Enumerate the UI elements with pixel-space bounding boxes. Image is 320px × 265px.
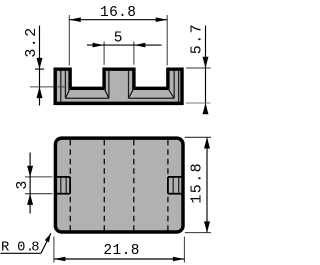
dimension 3 extension lines (notch height) bbox=[25, 177, 53, 194]
plan view: rounded rectangle body outline bbox=[55, 138, 183, 232]
R 0.8 leader arrowhead bbox=[45, 233, 51, 242]
svg-text:21.8: 21.8 bbox=[103, 243, 139, 259]
front view right leg fillet edge lines bbox=[174, 71, 178, 102]
dimension 3.2 lower extension line (hidden part, under front view) bbox=[30, 86, 67, 88]
front view base fillet horizontal edges bbox=[65, 97, 174, 99]
dimension 3 lower arrowhead bbox=[27, 194, 33, 205]
svg-text:3.2: 3.2 bbox=[23, 26, 40, 57]
dimension 3.2 upper arrowhead bbox=[37, 58, 43, 69]
dimension 21.8 extension lines bbox=[54, 237, 185, 263]
plan view hidden slot edges (dashed) bbox=[70, 140, 168, 231]
dimension 21.8 dimension line bbox=[54, 258, 185, 260]
dimension 5.7 lower extension line bbox=[186, 102, 211, 104]
corner radius label R 0.8 bbox=[1, 240, 40, 255]
dimension 3 upper arrowhead bbox=[27, 166, 33, 177]
svg-text:16.8: 16.8 bbox=[100, 5, 136, 21]
dimension 3.2 dimension line (leg height) bbox=[39, 26, 41, 106]
dimension 16.8 dimension line bbox=[69, 19, 167, 21]
dimension 15.8 lower arrowhead bbox=[204, 221, 210, 232]
R 0.8 leader diagonal bbox=[41, 233, 51, 253]
dimension 15.8 upper arrowhead bbox=[204, 137, 210, 148]
dimension 21.8 left arrowhead bbox=[54, 257, 66, 262]
dimension 5.7 dimension line (total height) bbox=[205, 26, 207, 112]
dimension 5.7 upper arrowhead bbox=[203, 57, 209, 68]
dimension 5 right arrowhead bbox=[134, 43, 146, 48]
front view left leg fillet edge lines bbox=[61, 71, 66, 102]
svg-text:3: 3 bbox=[14, 180, 31, 189]
plan view left side notch outline bbox=[55, 177, 70, 194]
dimension 3.2 lower arrowhead bbox=[37, 87, 43, 98]
dimension 15.8 lower extension line bbox=[185, 232, 211, 234]
dimension 5.7 lower arrowhead bbox=[203, 103, 209, 114]
dimension 3 dimension line bbox=[29, 153, 31, 214]
plan view left notch inner edge lines bbox=[61, 178, 66, 193]
dimension 15.8 dimension line (plan depth) bbox=[206, 137, 208, 232]
dimension 16.8 right arrowhead bbox=[156, 17, 168, 22]
front view slot corner fillet diagonals bbox=[65, 88, 174, 98]
dimension 3.2 lower extension line (visible part over fill) bbox=[58, 86, 67, 88]
dimension 5 dimension line bbox=[87, 44, 162, 46]
plan view right side notch outline bbox=[168, 177, 183, 194]
front view: E-core comb cross-section outline bbox=[55, 69, 182, 103]
dimension 16.8 left arrowhead bbox=[69, 17, 81, 22]
dimension 3.2 upper extension tick bbox=[35, 68, 44, 70]
R 0.8 leader underline bbox=[1, 252, 42, 254]
dimension 15.8 upper extension line bbox=[185, 136, 211, 138]
dimension 21.8 right arrowhead bbox=[173, 257, 185, 262]
svg-text:15.8: 15.8 bbox=[189, 162, 206, 204]
dimension 5.7 upper extension line bbox=[186, 67, 210, 69]
dimension 5 left arrowhead bbox=[93, 43, 105, 48]
front view center leg fillet edge lines bbox=[109, 71, 129, 99]
svg-text:5: 5 bbox=[114, 30, 123, 46]
dimension 16.8 extension lines bbox=[69, 15, 167, 66]
plan view right notch inner edge lines bbox=[173, 178, 179, 193]
dimension 5 extension lines (center leg width) bbox=[104, 42, 134, 65]
svg-text:5.7: 5.7 bbox=[189, 23, 206, 54]
